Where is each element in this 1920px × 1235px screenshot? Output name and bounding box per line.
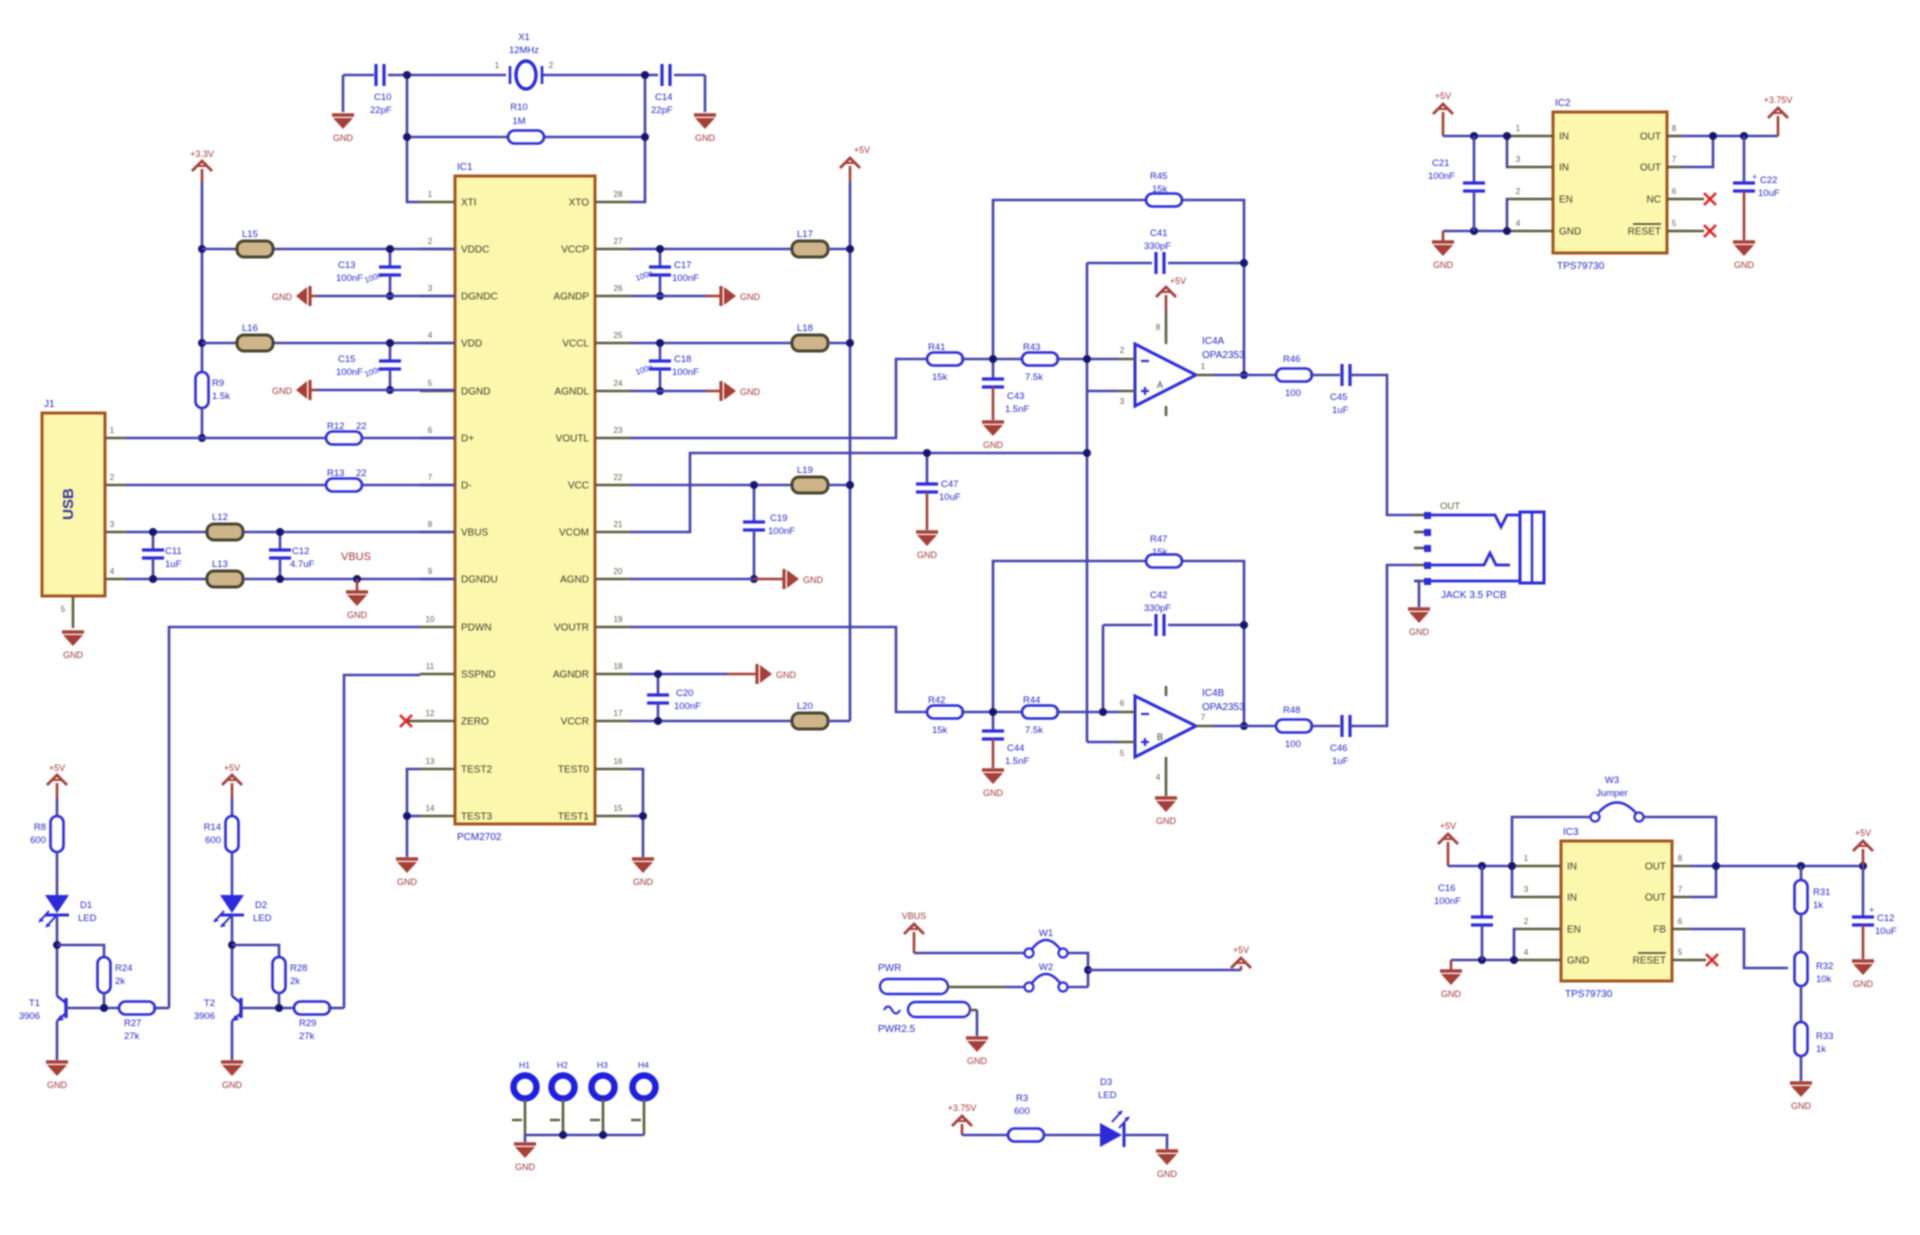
svg-text:1k: 1k — [1816, 1044, 1826, 1055]
svg-text:IC4B: IC4B — [1202, 688, 1225, 699]
resistor R44 7.5k — [1022, 695, 1058, 736]
svg-text:VCC: VCC — [568, 481, 589, 492]
svg-text:IN: IN — [1559, 163, 1569, 174]
svg-text:11: 11 — [426, 662, 435, 671]
svg-text:7.5k: 7.5k — [1025, 372, 1043, 383]
capacitor C10 22pF — [370, 64, 392, 116]
wire TEST0 TEST1 to ground — [630, 769, 643, 857]
svg-text:D3: D3 — [1100, 1077, 1112, 1088]
ground PWR2.5 — [966, 1036, 988, 1039]
svg-text:W3: W3 — [1605, 775, 1619, 786]
svg-text:JACK 3.5 PCB: JACK 3.5 PCB — [1441, 590, 1507, 601]
LED D1 — [39, 895, 97, 927]
svg-text:3: 3 — [110, 520, 115, 529]
IC IC1 PCM2702 body — [455, 176, 595, 824]
wire IC2 input rail — [1443, 135, 1508, 138]
svg-text:100nF: 100nF — [672, 367, 699, 378]
capacitor C16 100nF — [1434, 866, 1493, 960]
svg-text:5: 5 — [1672, 219, 1677, 228]
svg-text:R29: R29 — [299, 1018, 316, 1029]
wire R27 to PDWN net — [153, 1007, 169, 1010]
wire DGNDC row — [316, 295, 455, 298]
svg-text:+5V: +5V — [1435, 91, 1451, 101]
svg-text:D2: D2 — [255, 900, 267, 911]
no-connect X IC2 NC — [1682, 193, 1716, 205]
wire R41 to R43 — [961, 358, 1024, 361]
svg-text:IC2: IC2 — [1555, 98, 1571, 109]
resistor R47 15k feedback — [1146, 534, 1182, 568]
svg-text:3: 3 — [1516, 155, 1521, 164]
wire IC3 ground rail — [1451, 959, 1516, 962]
svg-text:C12: C12 — [292, 546, 309, 557]
mounting holes H1-H4 — [512, 1060, 656, 1135]
wire AGNDP row — [630, 295, 706, 298]
svg-text:100: 100 — [1285, 388, 1301, 399]
resistor R41 15k — [927, 342, 963, 383]
wire D3 to ground — [1124, 1135, 1167, 1149]
svg-text:PDWN: PDWN — [461, 623, 492, 634]
svg-text:L15: L15 — [242, 229, 258, 240]
svg-text:4: 4 — [1516, 219, 1521, 228]
svg-text:+: + — [1869, 905, 1874, 915]
svg-text:C15: C15 — [338, 354, 355, 365]
wire jack sleeve to ground — [1414, 581, 1419, 607]
svg-text:10uF: 10uF — [1758, 188, 1780, 199]
svg-text:25: 25 — [614, 331, 623, 340]
svg-text:4: 4 — [1524, 948, 1529, 957]
svg-text:27k: 27k — [124, 1031, 140, 1042]
wire R3 to D3 — [1044, 1134, 1100, 1137]
wire mounting holes common — [525, 1134, 644, 1137]
op-amp IC4A OPA2353 — [1118, 310, 1245, 416]
svg-text:GND: GND — [983, 440, 1004, 450]
wire opamp B non-inverting stub — [1087, 741, 1118, 744]
resistor R27 27k — [119, 1002, 155, 1043]
resistor R46 100 output A — [1276, 354, 1312, 399]
capacitor C46 1uF output B — [1330, 715, 1350, 767]
svg-text:2: 2 — [110, 473, 115, 482]
ground DGNDC — [272, 286, 316, 306]
svg-text:8: 8 — [1156, 323, 1161, 332]
wire opamp A non-inverting stub — [1087, 390, 1118, 393]
svg-text:LED: LED — [78, 913, 97, 924]
svg-text:C22: C22 — [1760, 175, 1777, 186]
junction dot LED1 branch — [53, 941, 61, 949]
svg-text:17: 17 — [614, 709, 623, 718]
svg-text:VDD: VDD — [461, 339, 482, 350]
resistor R43 7.5k — [1022, 342, 1058, 383]
svg-text:+5V: +5V — [1855, 828, 1871, 838]
wire crystal lower rail with R10 — [407, 136, 508, 139]
svg-text:H1: H1 — [519, 1060, 530, 1070]
svg-text:+5V: +5V — [1233, 945, 1249, 955]
resistor R14 600 — [204, 816, 239, 852]
svg-text:GND: GND — [47, 1080, 68, 1090]
wire R14 to LED D2 — [231, 852, 234, 895]
svg-text:GND: GND — [1409, 627, 1430, 637]
svg-text:10: 10 — [426, 615, 435, 624]
ground IC3 output cap — [1852, 959, 1874, 962]
power +5V IC3 output — [1862, 849, 1865, 866]
jumper W1 — [1025, 928, 1068, 958]
svg-text:GND: GND — [333, 133, 354, 143]
svg-text:R47: R47 — [1150, 534, 1167, 545]
op-amp IC4B OPA2353 — [1118, 686, 1245, 796]
wire L18 to 5V bus — [828, 342, 850, 345]
wire R29 to SSPND net — [328, 1007, 344, 1010]
svg-text:24: 24 — [614, 379, 623, 388]
wire D- from USB — [126, 484, 326, 487]
svg-text:C19: C19 — [770, 513, 787, 524]
ground AGNDP — [706, 286, 761, 306]
capacitor C45 1uF output A — [1330, 364, 1350, 416]
resistor R45 15k feedback — [1146, 171, 1182, 207]
wire W2 to junction — [1068, 986, 1088, 989]
svg-text:1: 1 — [1201, 362, 1206, 371]
svg-text:22: 22 — [614, 473, 623, 482]
svg-text:8: 8 — [1672, 124, 1677, 133]
svg-text:AGNDR: AGNDR — [553, 670, 589, 681]
crystal X1 12MHz — [495, 32, 554, 89]
wire IC2 ground rail — [1443, 230, 1508, 233]
svg-text:C45: C45 — [1330, 392, 1347, 403]
wire IC3 input rail — [1448, 865, 1516, 868]
svg-text:330pF: 330pF — [1144, 241, 1171, 252]
svg-text:OUT: OUT — [1645, 862, 1666, 873]
svg-text:TPS79730: TPS79730 — [1565, 989, 1613, 1000]
IC3 pin stubs and names — [1516, 854, 1690, 967]
ground USB shield — [62, 630, 84, 633]
resistor R3 600 — [1008, 1093, 1044, 1142]
wire AGNDL row — [630, 390, 706, 393]
IC1 left pin stubs and names — [420, 190, 498, 823]
power +5V IC3 input — [1447, 842, 1450, 866]
ferrite L15 — [237, 229, 273, 257]
power +5V IC2 input — [1442, 112, 1445, 136]
svg-text:3906: 3906 — [194, 1011, 215, 1022]
svg-text:10k: 10k — [1816, 974, 1832, 985]
LED D3 — [1098, 1077, 1129, 1147]
svg-text:D-: D- — [461, 481, 472, 492]
ground TEST left — [396, 857, 418, 860]
svg-text:AGNDL: AGNDL — [555, 387, 590, 398]
wire C41 rail A — [1087, 262, 1152, 265]
capacitor C11 1uF — [142, 532, 182, 579]
wire R8 to LED D1 — [56, 852, 59, 895]
svg-text:XTO: XTO — [569, 198, 590, 209]
wire R12 to pin D+ — [362, 437, 455, 440]
resistor R33 1k divider bottom — [1795, 1022, 1834, 1056]
svg-text:+3.75V: +3.75V — [948, 1103, 977, 1113]
svg-text:6: 6 — [428, 426, 433, 435]
svg-text:R41: R41 — [928, 342, 945, 353]
svg-text:C16: C16 — [1438, 883, 1455, 894]
svg-text:VCCR: VCCR — [561, 717, 589, 728]
wire T1 emitter to ground — [56, 1021, 59, 1060]
svg-text:13: 13 — [426, 757, 435, 766]
svg-text:FB: FB — [1653, 925, 1666, 936]
svg-text:8: 8 — [1678, 854, 1683, 863]
svg-text:R24: R24 — [115, 963, 132, 974]
svg-text:R8: R8 — [34, 822, 46, 833]
svg-text:1.5nF: 1.5nF — [1005, 756, 1029, 767]
IC IC2 TPS79730 body — [1553, 98, 1667, 272]
ground IC3 left — [1450, 960, 1453, 971]
svg-text:PWR2.5: PWR2.5 — [878, 1024, 916, 1035]
svg-text:15k: 15k — [932, 725, 948, 736]
svg-text:2: 2 — [1524, 917, 1529, 926]
svg-text:100: 100 — [1285, 739, 1301, 750]
wire DGND row — [316, 389, 455, 392]
wire PWR pin to W2 — [1005, 986, 1024, 989]
svg-text:1: 1 — [1524, 854, 1529, 863]
capacitor C18 100nF — [634, 343, 699, 391]
svg-text:+3.3V: +3.3V — [190, 149, 214, 159]
junction dots IC2 left — [1470, 132, 1511, 235]
svg-text:100nF: 100nF — [1434, 896, 1461, 907]
resistor R12 22 — [326, 421, 367, 445]
wire T2 base to R29 — [241, 1007, 296, 1010]
wire VOUTL to filter A — [630, 359, 929, 438]
svg-text:+5V: +5V — [1440, 821, 1456, 831]
svg-text:X1: X1 — [518, 32, 530, 43]
svg-text:2: 2 — [1516, 187, 1521, 196]
resistor R42 15k — [927, 695, 963, 736]
capacitor C44 1.5nF — [982, 712, 1029, 768]
svg-text:H2: H2 — [557, 1060, 568, 1070]
connector PWR pin — [878, 963, 1005, 994]
svg-text:16: 16 — [614, 757, 623, 766]
wire VCCL row — [630, 342, 792, 345]
svg-text:LED: LED — [1098, 1090, 1117, 1101]
svg-text:GND: GND — [695, 133, 716, 143]
power +3.3V left bus — [201, 169, 204, 182]
svg-text:C42: C42 — [1150, 590, 1167, 601]
svg-text:R44: R44 — [1023, 695, 1040, 706]
ground jack — [1408, 607, 1430, 610]
capacitor C12b 10uF output — [1852, 866, 1897, 959]
svg-text:4.7uF: 4.7uF — [290, 559, 314, 570]
wire R48 to C46 — [1310, 725, 1340, 728]
wire +5V bus vertical — [849, 182, 852, 721]
junction dot power select — [1084, 966, 1092, 974]
svg-text:L13: L13 — [212, 559, 228, 570]
svg-text:TEST2: TEST2 — [461, 765, 493, 776]
svg-text:600: 600 — [1014, 1106, 1030, 1117]
svg-text:GND: GND — [1567, 956, 1589, 967]
svg-text:GND: GND — [1853, 979, 1874, 989]
svg-text:21: 21 — [614, 520, 623, 529]
IC IC3 TPS79730 body — [1561, 827, 1672, 1000]
svg-text:VDDC: VDDC — [461, 245, 489, 256]
svg-text:D+: D+ — [461, 434, 474, 445]
svg-text:27: 27 — [614, 237, 623, 246]
wire IC3 output rail — [1690, 865, 1863, 868]
svg-text:H3: H3 — [597, 1060, 608, 1070]
svg-text:GND: GND — [967, 1056, 988, 1066]
junction dot base1 — [100, 1004, 108, 1012]
svg-text:2: 2 — [428, 237, 433, 246]
ground TEST right — [632, 857, 654, 860]
resistor R32 10k divider mid — [1795, 952, 1834, 986]
power +5V LED1 — [56, 783, 59, 798]
svg-text:GND: GND — [1734, 260, 1755, 270]
svg-text:L18: L18 — [797, 323, 813, 334]
svg-text:GND: GND — [1433, 260, 1454, 270]
resistor R28 2k — [273, 957, 308, 993]
svg-text:TEST0: TEST0 — [558, 765, 590, 776]
ground under C10 — [332, 75, 354, 143]
wire crystal top rail — [343, 74, 374, 77]
svg-text:23: 23 — [614, 426, 623, 435]
svg-text:26: 26 — [614, 284, 623, 293]
wire VCC row — [630, 484, 792, 487]
svg-text:600: 600 — [205, 835, 221, 846]
svg-text:USB: USB — [60, 488, 77, 520]
svg-text:GND: GND — [222, 1080, 243, 1090]
wire VBUS to W1 — [914, 952, 1024, 955]
junction dot LED2 branch — [228, 941, 236, 949]
ground AGNDL — [706, 381, 761, 401]
junction dots filter B — [989, 621, 1248, 730]
wire C46 to jack ring — [1350, 565, 1414, 726]
svg-text:IN: IN — [1559, 132, 1569, 143]
wire AGNDR row — [630, 673, 727, 676]
ground under C44 — [982, 768, 1004, 771]
capacitor C47 10uF vcom — [916, 453, 961, 530]
svg-text:28: 28 — [614, 190, 623, 199]
capacitor C22 10uF — [1733, 136, 1780, 240]
svg-text:J1: J1 — [44, 399, 55, 410]
svg-text:W2: W2 — [1039, 962, 1053, 973]
svg-text:100nF: 100nF — [336, 367, 363, 378]
power +5V opamp A — [1165, 295, 1168, 310]
ferrite L13 — [207, 559, 243, 587]
svg-text:GND: GND — [740, 292, 761, 302]
junction dots filter A — [989, 259, 1248, 457]
ground D3 — [1156, 1149, 1178, 1152]
wire R42 to R44 — [961, 711, 1024, 714]
svg-text:3: 3 — [1524, 885, 1529, 894]
wire PWR2.5 to ground — [976, 1010, 979, 1036]
wire +3.3V bus vertical — [201, 182, 204, 372]
svg-text:DGND: DGND — [461, 387, 490, 398]
ground under C14 — [694, 75, 716, 143]
wire GND row to DGNDU pin — [243, 578, 455, 581]
power +5V selected — [1240, 966, 1243, 970]
wire T1 base to R27 — [66, 1007, 121, 1010]
junction dot base2 — [275, 1004, 283, 1012]
svg-text:15: 15 — [614, 804, 623, 813]
svg-text:OPA2353: OPA2353 — [1202, 350, 1245, 361]
svg-text:XTI: XTI — [461, 198, 477, 209]
svg-text:R45: R45 — [1150, 171, 1167, 182]
svg-text:9: 9 — [428, 567, 433, 576]
svg-text:R32: R32 — [1816, 961, 1833, 972]
svg-text:RESET: RESET — [1628, 227, 1661, 238]
svg-text:GND: GND — [776, 670, 797, 680]
ground divider — [1790, 1081, 1812, 1084]
svg-text:ZERO: ZERO — [461, 717, 489, 728]
svg-text:VBUS: VBUS — [341, 551, 371, 563]
connector PWR2.5 pin — [878, 1002, 977, 1035]
resistor R13 22 — [326, 468, 367, 492]
svg-text:VOUTR: VOUTR — [554, 623, 589, 634]
capacitor C41 330pF feedback — [1144, 228, 1171, 274]
wire to 5V net — [1088, 969, 1241, 972]
wire USB GND row — [126, 578, 207, 581]
wire C42 rail B — [1103, 624, 1152, 627]
svg-text:12MHz: 12MHz — [509, 45, 539, 56]
wire XTI vertical — [407, 75, 420, 202]
svg-text:H4: H4 — [638, 1060, 649, 1070]
svg-text:2k: 2k — [115, 976, 125, 987]
svg-text:C13: C13 — [338, 260, 355, 271]
svg-text:R12: R12 — [327, 421, 344, 432]
transistor T2 3906 — [194, 996, 241, 1022]
wire branch to R24 — [57, 945, 104, 958]
svg-text:OUT: OUT — [1640, 163, 1661, 174]
svg-text:5: 5 — [1678, 948, 1683, 957]
svg-text:LED: LED — [253, 913, 272, 924]
junction dot TEST3 — [403, 812, 411, 820]
svg-text:19: 19 — [614, 615, 623, 624]
junction dots holes — [559, 1131, 607, 1139]
svg-text:GND: GND — [272, 292, 293, 302]
svg-text:VCCP: VCCP — [561, 245, 589, 256]
wire branch to R28 — [232, 945, 279, 958]
ground AGND — [754, 569, 824, 589]
capacitor C42 330pF feedback — [1144, 590, 1171, 636]
svg-text:C41: C41 — [1150, 228, 1167, 239]
svg-text:GND: GND — [740, 387, 761, 397]
svg-text:C10: C10 — [374, 92, 391, 103]
junction dots crystal — [403, 71, 649, 141]
svg-text:C12: C12 — [1877, 913, 1894, 924]
svg-text:R43: R43 — [1023, 342, 1040, 353]
capacitor C15 100nF — [336, 343, 401, 390]
svg-text:10uF: 10uF — [1875, 926, 1897, 937]
svg-text:AGNDP: AGNDP — [553, 292, 589, 303]
svg-text:OUT: OUT — [1640, 132, 1661, 143]
svg-text:600: 600 — [30, 835, 46, 846]
wire opamp B output — [1213, 725, 1278, 728]
resistor R8 600 — [30, 816, 63, 852]
svg-text:+: + — [1752, 172, 1757, 182]
svg-text:OUT: OUT — [1440, 501, 1460, 512]
svg-text:R28: R28 — [290, 963, 307, 974]
svg-text:IC4A: IC4A — [1202, 336, 1225, 347]
svg-text:VOUTL: VOUTL — [556, 434, 590, 445]
svg-text:12: 12 — [426, 709, 435, 718]
wire VOUTR to filter B — [630, 627, 929, 712]
svg-text:VCCL: VCCL — [562, 339, 589, 350]
svg-text:+5V: +5V — [854, 145, 870, 155]
no-connect X on ZERO pin — [400, 715, 420, 727]
junction dots VDDC — [386, 245, 394, 300]
svg-text:TPS79730: TPS79730 — [1557, 261, 1605, 272]
wire PDWN net to LED driver 1 — [169, 627, 420, 1008]
wire D+ from USB — [126, 437, 326, 440]
transistor T1 3906 — [19, 996, 66, 1022]
svg-text:OUT: OUT — [1645, 893, 1666, 904]
svg-text:1.5k: 1.5k — [212, 391, 230, 402]
ground AGNDR — [727, 664, 797, 684]
svg-text:2: 2 — [549, 61, 554, 70]
wire VDD row — [202, 342, 237, 345]
svg-text:4: 4 — [1156, 773, 1161, 782]
svg-text:IN: IN — [1567, 893, 1577, 904]
